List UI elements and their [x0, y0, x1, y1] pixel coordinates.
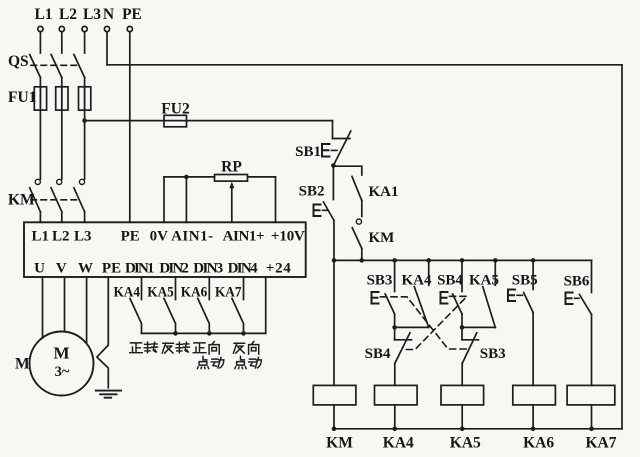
wire U to motor [42, 277, 44, 338]
svg-text:PE: PE [121, 229, 140, 245]
terminal N [103, 6, 114, 32]
pushbutton SB1 (NC stop) [295, 121, 351, 166]
node SB2 bottom [332, 258, 337, 263]
wire KM to box pole3 [84, 212, 86, 223]
node SB5 branch top [531, 258, 536, 263]
svg-text:L3: L3 [83, 6, 101, 23]
contact KA5 (NO, parallel) [469, 260, 499, 327]
label reverse (fanzhuan) [162, 342, 189, 353]
wire QS to FU1 pole1 [39, 78, 41, 111]
svg-text:KA5: KA5 [450, 435, 481, 452]
label forward jog line2 (diandong) [197, 356, 223, 368]
wire PE down to box [129, 32, 131, 223]
svg-text:SB4: SB4 [365, 346, 391, 362]
wire KM to box pole1 [39, 212, 41, 223]
svg-text:FU1: FU1 [8, 89, 36, 106]
svg-text:L3: L3 [74, 229, 92, 245]
terminal PE [122, 6, 142, 32]
svg-text:N: N [103, 6, 114, 23]
wire DIN1 stub [141, 277, 143, 300]
wire 0V stub [163, 177, 165, 222]
svg-text:L2: L2 [59, 6, 77, 23]
contact KA4 (NO, parallel) [402, 260, 433, 327]
svg-text:SB1: SB1 [295, 144, 321, 160]
label reverse jog line2 (diandong) [235, 356, 261, 368]
coil KA7 [567, 385, 617, 451]
wire +10V stub [275, 177, 277, 222]
wire QS to FU1 pole3 [84, 78, 86, 111]
node KA5 on +24 bus [173, 331, 178, 336]
coil KA6 [513, 385, 556, 451]
node KA6 on +24 bus [207, 331, 212, 336]
coil KA4 [375, 385, 418, 451]
node KM coil bottom [332, 427, 337, 432]
wire L1 to QS [39, 32, 41, 53]
wire N down [106, 32, 108, 65]
wire QS to FU1 pole2 [61, 78, 63, 111]
wire FU1 to KM contacts pole2 [61, 110, 63, 179]
svg-text:V: V [56, 261, 67, 277]
wire +24 common bus [142, 332, 266, 334]
svg-text:AIN1+: AIN1+ [223, 229, 265, 245]
wire bottom return bus [334, 428, 622, 430]
coil KM [313, 385, 356, 451]
svg-text:SB6: SB6 [564, 274, 590, 290]
node SB3/KA4 join [392, 325, 397, 330]
potentiometer RP [164, 159, 276, 223]
pushbutton SB5 (NO) [508, 260, 538, 385]
node KA6 coil bottom [531, 427, 536, 432]
terminal L1 [34, 6, 52, 32]
inverter terminal box U1 [24, 222, 306, 277]
svg-text:DIN3: DIN3 [193, 261, 223, 277]
motor M1 [15, 332, 94, 396]
svg-text:M: M [53, 344, 69, 363]
wire PE to motor frame [97, 277, 108, 388]
svg-text:KA7: KA7 [215, 285, 242, 301]
mechanical link SB3 to SB3-NC (dashed) [381, 297, 469, 349]
svg-text:DIN4: DIN4 [228, 261, 259, 277]
svg-text:SB3: SB3 [480, 346, 506, 362]
terminal L3 [82, 6, 101, 32]
node AIN1- tap [184, 175, 189, 180]
wire DIN3 stub [208, 277, 210, 300]
wire N horizontal to right edge [107, 64, 622, 66]
node KA5 branch top [493, 258, 498, 263]
svg-text:PE: PE [122, 6, 142, 23]
node KA5 coil bottom [460, 427, 465, 432]
svg-text:RP: RP [221, 159, 242, 176]
node KA7 coil bottom [589, 427, 594, 432]
contact KA7 (DIN4) [215, 285, 244, 334]
label forward (zhengzhuan) [130, 342, 158, 353]
svg-text:AIN1-: AIN1- [171, 229, 213, 245]
svg-text:SB2: SB2 [299, 184, 325, 200]
node SB4 branch top [460, 258, 465, 263]
svg-text:KA4: KA4 [402, 272, 433, 288]
wire N right edge down [621, 65, 623, 429]
wire DIN4 stub [243, 277, 245, 300]
ground [96, 391, 121, 398]
node KM branch bottom [360, 258, 365, 263]
pushbutton SB2 (NO start) [299, 166, 334, 261]
wire branch to KA1 [333, 166, 361, 175]
node KA7 on +24 bus [241, 331, 246, 336]
svg-text:M: M [15, 356, 30, 373]
svg-text:KM: KM [326, 435, 353, 452]
svg-text:U: U [34, 261, 45, 277]
svg-text:L1: L1 [34, 6, 52, 23]
pushbutton SB3 NC interlock [462, 327, 506, 385]
svg-text:+24: +24 [266, 261, 292, 277]
node KA4 branch top [426, 258, 431, 263]
svg-text:KA7: KA7 [586, 435, 617, 452]
pushbutton SB3 (NO) [367, 260, 395, 327]
svg-text:KM: KM [369, 230, 395, 246]
svg-text:+10V: +10V [271, 229, 305, 245]
svg-text:KA1: KA1 [369, 184, 399, 200]
wire KM coil branch [333, 260, 335, 385]
svg-text:KA5: KA5 [147, 285, 174, 301]
contactor main contacts KM [8, 179, 85, 212]
fuse FU2 [161, 101, 190, 127]
svg-text:W: W [78, 261, 93, 277]
disconnect switch QS [8, 53, 85, 78]
contact KA4 (DIN1) [114, 285, 142, 334]
wire control feed with fuse FU2 [85, 120, 333, 122]
label forward jog line1 (zhengxiang) [193, 342, 219, 355]
wire AIN1- stub [185, 177, 187, 222]
svg-text:KA6: KA6 [523, 435, 554, 452]
wire W to motor [86, 277, 88, 343]
node SB4/KA5 join [460, 325, 465, 330]
node A after SB1 [331, 163, 336, 168]
svg-text:3~: 3~ [55, 364, 70, 380]
wire KM to box pole2 [61, 212, 63, 223]
pushbutton SB6 (NO) [564, 260, 592, 385]
wire DIN2 stub [175, 277, 177, 300]
contact KA1 (NO, self-hold) [352, 177, 399, 217]
contact KA6 (DIN3) [181, 285, 210, 334]
wire L2 to QS [61, 32, 63, 53]
wire join SB3/KA4 [395, 326, 429, 328]
node KA4 coil bottom [393, 427, 398, 432]
svg-text:KA4: KA4 [383, 435, 414, 452]
wire FU1 to KM contacts pole3 [84, 110, 86, 179]
label reverse jog line1 (fanxiang) [233, 342, 258, 355]
pushbutton SB4 (NO) [437, 260, 463, 327]
svg-text:QS: QS [8, 53, 29, 70]
svg-text:KA6: KA6 [181, 285, 208, 301]
svg-text:0V: 0V [150, 229, 169, 245]
svg-text:DIN1: DIN1 [125, 261, 155, 277]
wire +24 stub [265, 277, 267, 333]
wire V to motor [64, 277, 66, 332]
svg-text:L1: L1 [31, 229, 49, 245]
svg-text:L2: L2 [52, 229, 70, 245]
contact KA5 (DIN2) [147, 285, 175, 334]
svg-text:SB3: SB3 [367, 272, 393, 288]
svg-text:DIN2: DIN2 [159, 261, 189, 277]
wire join SB4/KA5 [462, 326, 495, 328]
mechanical link SB4 to SB4-NC (dashed) [404, 296, 468, 349]
node SB3 branch top [392, 258, 397, 263]
svg-text:SB4: SB4 [437, 272, 463, 288]
contact KM (aux, with hook) [352, 219, 394, 260]
svg-text:PE: PE [102, 261, 121, 277]
fuse FU1 [8, 87, 91, 110]
svg-text:KA4: KA4 [114, 285, 141, 301]
coil KA5 [441, 385, 484, 451]
wire control bus [333, 259, 591, 261]
wire L3 to QS [84, 32, 86, 53]
pushbutton SB4 NC interlock [365, 327, 412, 385]
node control feed tap [82, 118, 87, 123]
wire FU1 to KM contacts pole1 [39, 110, 41, 179]
terminal L2 [59, 6, 77, 32]
